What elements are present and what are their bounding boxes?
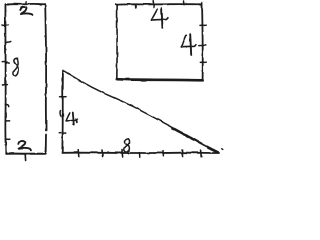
triangle bottom tick 3 [121, 150, 124, 157]
triangle leg tick 2 [59, 111, 62, 117]
square bottom edge [117, 79, 203, 80]
ink speck right of triangle tip [222, 148, 223, 151]
square right tick 3 [200, 61, 206, 63]
square right tick 1 [200, 24, 206, 26]
rectangle top edge small tick [25, 2, 28, 5]
triangle bottom edge [62, 152, 219, 154]
label 4 right of square [181, 34, 196, 55]
rectangle left edge tick 3 [2, 61, 9, 63]
triangle bottom tick 7 [200, 150, 203, 157]
rectangle left edge [4, 4, 6, 154]
triangle bottom tick 1 [77, 150, 80, 157]
square top tick 1 (down) [134, 4, 137, 8]
square top tick 3 (up) [183, 1, 185, 5]
rectangle left edge tick 5 [5, 105, 8, 107]
triangle hypotenuse thickening [172, 128, 218, 152]
triangle bottom tick 2 [101, 150, 104, 157]
rectangle left edge tick 6 [5, 120, 9, 122]
label 2 top of rectangle [20, 7, 32, 15]
triangle vertical leg [61, 71, 64, 153]
triangle bottom tick 6 [181, 150, 184, 157]
rectangle right edge [44, 4, 47, 130]
square right tick 2 [199, 44, 206, 46]
rectangle left edge tick 4 [3, 84, 8, 86]
triangle hypotenuse [63, 71, 218, 153]
triangle hypotenuse thick tip [209, 148, 218, 153]
square top edge [116, 3, 202, 6]
rectangle left edge tick 1 [2, 24, 8, 26]
label 4 of triangle [66, 112, 78, 125]
label 2 bottom of rectangle [19, 141, 31, 150]
label 4 top of square [151, 9, 168, 28]
triangle bottom tick 5 [162, 151, 164, 156]
rectangle right edge lower segment [45, 135, 47, 154]
rectangle left edge tick 7 [5, 138, 10, 140]
square right edge [201, 3, 204, 80]
rectangle bottom edge [6, 153, 46, 155]
rectangle top edge [6, 3, 46, 6]
rectangle left edge tick 2 [5, 41, 11, 42]
label 8 middle of rectangle [13, 59, 18, 76]
rectangle bottom tick below [24, 154, 26, 161]
label 8 bottom of triangle [124, 138, 130, 152]
triangle leg tick 1 [60, 96, 66, 98]
triangle bottom tick 4 [138, 153, 140, 158]
square top tick 2 (cross) [152, 1, 155, 8]
square left edge [116, 5, 118, 79]
triangle leg tick 3 [59, 132, 65, 134]
